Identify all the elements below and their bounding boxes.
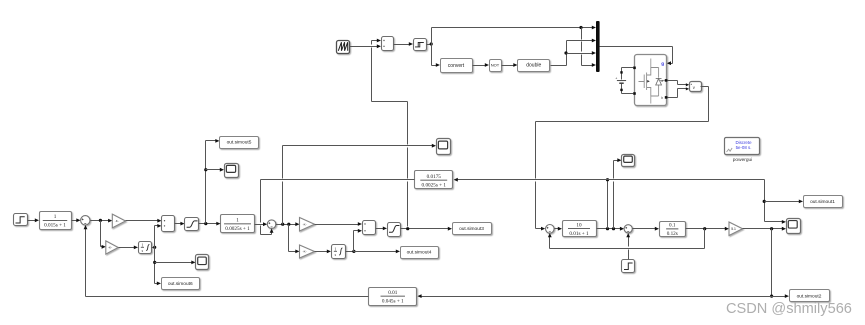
discrete-time integrator 1 xyxy=(139,242,152,254)
data type conversion block 'double' xyxy=(518,60,550,72)
wire gain2 to discrete integrator1 xyxy=(119,247,136,249)
out.simout6 block xyxy=(162,278,200,290)
wire tf4 to sum2 xyxy=(255,224,265,226)
svg-text:0.0025s + 1: 0.0025s + 1 xyxy=(225,226,250,232)
wire tf5 to sum1 xyxy=(72,220,79,222)
wire branch down to gain4 xyxy=(288,225,290,252)
saturation1 block xyxy=(185,218,199,231)
scope5 xyxy=(622,155,635,167)
wire gain4 to discrete integrator2 xyxy=(315,251,329,253)
svg-text:out.simout6: out.simout6 xyxy=(168,281,193,287)
svg-text:Discrete: Discrete xyxy=(735,140,752,145)
wire bottom filter output back to sum1 xyxy=(86,296,369,298)
out.simout4 block xyxy=(401,247,439,259)
svg-text:-K-: -K- xyxy=(108,246,112,250)
bridge right port A xyxy=(665,79,668,82)
svg-text:0.0175: 0.0175 xyxy=(427,174,442,180)
svg-text:b: b xyxy=(661,96,663,100)
svg-text:-K-: -K- xyxy=(303,250,307,254)
gain4 triangle xyxy=(300,245,315,258)
scope4 xyxy=(196,255,209,270)
wire tf2 to gain5 with junction xyxy=(686,228,727,230)
wire NOT to double xyxy=(502,65,516,67)
wire down to scope4 and out.simout6 xyxy=(154,248,156,284)
DC voltage source V1 xyxy=(622,67,634,69)
svg-text:0.1: 0.1 xyxy=(669,223,676,229)
svg-text:5e-08 s.: 5e-08 s. xyxy=(736,145,752,150)
svg-text:a: a xyxy=(661,79,663,83)
svg-text:0.01s + 1: 0.01s + 1 xyxy=(569,231,589,237)
transfer fcn 1/(0.0025s+1) xyxy=(221,215,255,233)
wire sum3 to transfer fcn 10/(0.01s+1) xyxy=(555,228,560,230)
wire branch up to scope5 xyxy=(613,182,615,229)
logical operator block NOT xyxy=(490,60,502,72)
svg-text:out.simout1: out.simout1 xyxy=(810,199,835,205)
svg-text:-K-: -K- xyxy=(115,219,119,223)
wire double up to mux input 2 xyxy=(551,65,567,67)
svg-text:+: + xyxy=(615,76,617,80)
relay (hysteresis) block xyxy=(414,39,427,51)
wire to out.simout1 xyxy=(765,201,801,203)
scope3 (two inputs) xyxy=(787,219,801,234)
wire adder2 to saturation2 xyxy=(376,228,385,230)
svg-text:powergui: powergui xyxy=(733,157,752,163)
adder2 block xyxy=(363,221,376,235)
feedback wire tf2 output down and back to sum3 xyxy=(704,229,706,249)
discrete-time integrator 2 xyxy=(332,245,346,259)
sum junction S3 xyxy=(546,225,555,234)
gain1 triangle xyxy=(112,214,125,228)
wire up into adder1 lower input xyxy=(154,226,156,248)
scope2 xyxy=(437,139,451,155)
svg-text:0.0025s + 1: 0.0025s + 1 xyxy=(422,182,447,188)
wire relay junction down to convert block xyxy=(431,45,433,66)
long line tf1-output to 0.0175 filter (leftward) xyxy=(457,179,608,181)
mux block (4 inputs) xyxy=(596,21,600,72)
wire saturation2 to out.simout3 with junction to PWM xyxy=(401,228,450,230)
svg-text:0.01: 0.01 xyxy=(388,290,397,296)
gain2 triangle xyxy=(106,241,118,254)
wire junction down to output row xyxy=(771,229,773,297)
wire gain3 to adder2 xyxy=(315,224,360,226)
svg-text:0.015s + 1: 0.015s + 1 xyxy=(44,223,66,229)
svg-text:-K-: -K- xyxy=(303,222,307,226)
wire left along bottom to transfer fcn 0.01/(0.045s+1) input xyxy=(420,296,772,298)
sum junction S1 xyxy=(81,216,90,225)
adder1 block xyxy=(162,216,175,232)
svg-text:10: 10 xyxy=(576,222,582,228)
svg-text:0.12s: 0.12s xyxy=(667,231,678,237)
svg-text:out.simout2: out.simout2 xyxy=(797,293,822,299)
wire saturation1 output with junction xyxy=(199,223,219,225)
wire integrator2 output junction xyxy=(346,251,354,253)
gain5 triangle xyxy=(729,222,743,236)
sum junction S4 xyxy=(624,225,632,233)
out.simout3 block xyxy=(453,223,492,235)
step source block step1 xyxy=(14,214,28,226)
out.simout2 block xyxy=(790,290,830,302)
wire up into adder2 lower input xyxy=(353,231,355,252)
data type conversion block 'convert' xyxy=(441,59,473,73)
svg-text:1: 1 xyxy=(236,218,239,224)
out.simout5 block xyxy=(220,137,259,149)
wire to out.simout2 xyxy=(772,296,787,298)
wire sum1 to gain1 with junction xyxy=(91,220,110,222)
wire branch down to gain2 xyxy=(100,221,102,247)
wire relay junction up to mux input 1 xyxy=(431,28,433,45)
transfer fcn 0.0175/(0.0025s+1) (feedback filter) xyxy=(415,171,453,189)
sum junction S2 xyxy=(267,220,276,229)
wire branch up to long feedback line xyxy=(607,180,609,229)
svg-text:0.045s + 1: 0.045s + 1 xyxy=(382,298,404,304)
wire branch up to scope2 xyxy=(282,182,284,225)
svg-text:out.simout3: out.simout3 xyxy=(459,226,484,232)
svg-text:out.simout5: out.simout5 xyxy=(227,140,252,146)
powergui block xyxy=(725,138,760,155)
wire sum2 to gain3 with branch junctions xyxy=(276,224,298,226)
transfer fcn 0.1/(0.12s) xyxy=(660,222,686,237)
svg-text:5.1: 5.1 xyxy=(731,227,736,231)
long line tf1-output rightward to scope3/out.simout1 xyxy=(608,179,765,181)
wire relay output to junction xyxy=(427,44,432,46)
wire gain1 to adder1 xyxy=(126,220,160,222)
gain3 triangle xyxy=(300,218,315,232)
wire mux output to bridge gate g xyxy=(600,46,673,48)
svg-text:double: double xyxy=(526,63,541,69)
wire relay branch down to mux input 4 xyxy=(581,28,583,40)
svg-text:convert: convert xyxy=(448,63,465,69)
wire sum4 to transfer fcn 0.1/0.12s xyxy=(633,228,657,230)
scope1 xyxy=(225,164,239,178)
comparator (relational operator) block xyxy=(382,37,394,51)
wire bridge port A to voltage measurement + xyxy=(668,80,678,82)
svg-text:NOT: NOT xyxy=(491,63,500,68)
svg-text:1: 1 xyxy=(334,246,336,251)
bridge left port 2 (-) xyxy=(633,92,636,95)
wire step3 up to sum4 xyxy=(628,250,630,260)
wire integrator1 output junction xyxy=(152,247,155,249)
transfer fcn 0.01/(0.045s+1) (bottom feedback filter) xyxy=(369,288,417,306)
transfer fcn 10/(0.01s+1) xyxy=(563,221,597,237)
wire filter output to sum2 lower input xyxy=(261,179,415,181)
saturation2 block xyxy=(388,223,401,237)
wire convert to NOT xyxy=(473,65,487,67)
wire branch up to scope1 and out.simout5 xyxy=(205,141,207,224)
sawtooth source (repeating sequence) xyxy=(337,41,350,54)
wire step1 to transfer fcn xyxy=(28,220,37,222)
wire comparator to relay xyxy=(394,44,411,46)
step source block step3 xyxy=(622,260,635,273)
wire control signal from saturation2 up to comparator upper input xyxy=(407,182,409,227)
svg-text:g: g xyxy=(661,61,664,66)
bridge left port 1 (+) xyxy=(633,67,636,70)
wire right to out.simout4 xyxy=(354,251,398,253)
wire tf to sum4 with branch junctions xyxy=(597,228,622,230)
out.simout1 block xyxy=(804,196,843,208)
svg-text:1: 1 xyxy=(141,242,143,247)
wire sawtooth to comparator lower input xyxy=(350,46,379,48)
wire branch to mux input 3 xyxy=(564,51,567,54)
wire adder1 to saturation1 xyxy=(175,223,183,225)
svg-text:out.simout4: out.simout4 xyxy=(407,250,432,256)
wire gain5 to scope3 lower input with junction xyxy=(743,228,784,230)
transfer fcn 1/(0.015s+1) xyxy=(40,212,72,230)
svg-text:1: 1 xyxy=(54,214,57,220)
wire bridge port B to voltage measurement - xyxy=(668,97,678,99)
svg-text:CSDN @shmily566: CSDN @shmily566 xyxy=(726,301,852,317)
wire voltage measurement output to sum3 (feedback) xyxy=(701,86,709,88)
IGBT/diode bridge block U1 xyxy=(635,55,667,106)
voltage measurement block Vm xyxy=(690,82,702,92)
bridge right port B xyxy=(665,96,668,99)
